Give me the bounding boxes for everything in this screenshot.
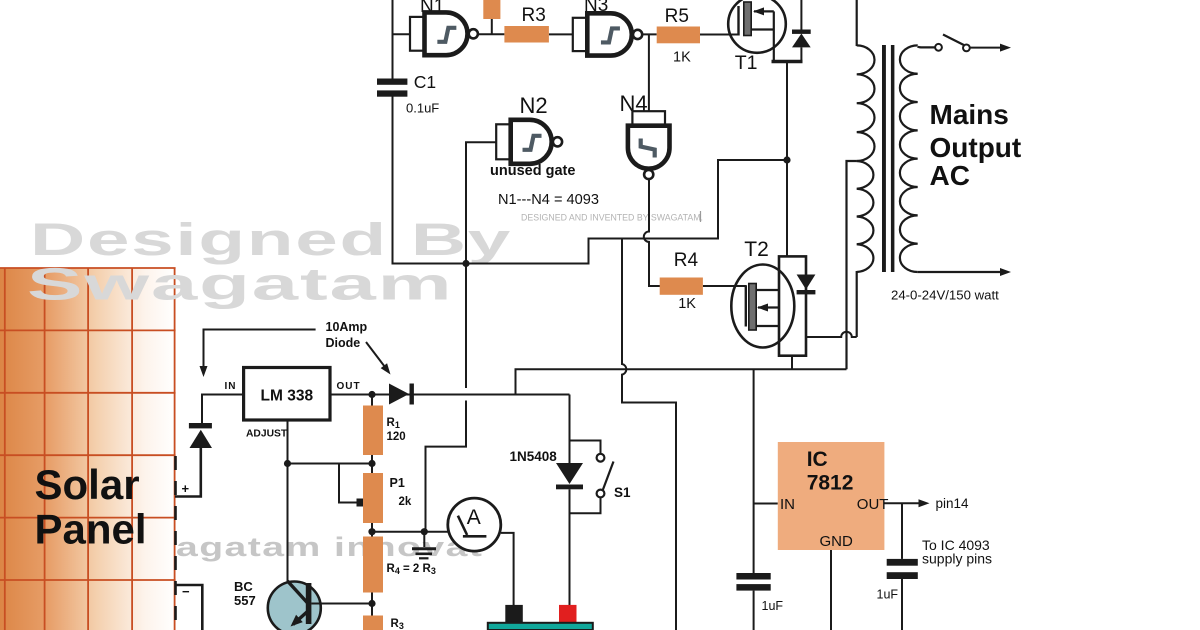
svg-text:2k: 2k (399, 496, 412, 508)
svg-text:P1: P1 (390, 476, 405, 490)
svg-text:Output: Output (930, 132, 1022, 163)
svg-text:120: 120 (387, 431, 406, 443)
svg-text:R4: R4 (674, 250, 699, 271)
svg-text:T1: T1 (735, 52, 758, 74)
svg-text:OUT: OUT (857, 496, 889, 513)
svg-text:IC: IC (807, 448, 828, 471)
svg-text:1uF: 1uF (762, 599, 784, 613)
svg-text:1K: 1K (678, 296, 696, 312)
svg-text:557: 557 (234, 593, 256, 608)
svg-text:1N5408: 1N5408 (510, 449, 558, 464)
svg-text:Panel: Panel (35, 506, 147, 553)
svg-text:C1: C1 (414, 72, 436, 92)
svg-text:−: − (182, 584, 190, 599)
svg-text:10Amp: 10Amp (326, 320, 368, 334)
svg-text:R5: R5 (665, 6, 689, 27)
svg-text:T2: T2 (744, 238, 769, 261)
svg-text:BC: BC (234, 579, 253, 594)
svg-text:R3: R3 (522, 5, 546, 26)
svg-text:agatam innovat: agatam innovat (176, 533, 483, 563)
svg-text:Solar: Solar (35, 461, 140, 508)
svg-text:OUT: OUT (337, 381, 361, 392)
svg-text:AC: AC (930, 160, 970, 191)
svg-text:1K: 1K (673, 50, 691, 66)
svg-text:IN: IN (225, 381, 237, 392)
svg-text:1uF: 1uF (877, 588, 899, 602)
svg-text:ADJUST: ADJUST (246, 429, 288, 440)
svg-text:Diode: Diode (326, 336, 361, 350)
svg-text:R4 = 2 R3: R4 = 2 R3 (387, 563, 436, 576)
svg-text:N2: N2 (520, 93, 548, 118)
svg-text:supply pins: supply pins (922, 551, 992, 567)
svg-text:+: + (182, 481, 190, 496)
svg-text:Designed By: Designed By (30, 215, 512, 265)
svg-text:Swagatam: Swagatam (27, 259, 454, 309)
svg-text:7812: 7812 (807, 472, 854, 495)
svg-text:24-0-24V/150 watt: 24-0-24V/150 watt (891, 288, 999, 303)
svg-text:0.1uF: 0.1uF (406, 101, 439, 116)
svg-text:N1---N4 = 4093: N1---N4 = 4093 (498, 192, 599, 208)
svg-text:IN: IN (780, 496, 795, 513)
svg-text:A: A (467, 506, 481, 529)
svg-text:S1: S1 (614, 485, 631, 500)
svg-text:LM 338: LM 338 (261, 388, 314, 405)
svg-text:DESIGNED AND INVENTED BY SWAGA: DESIGNED AND INVENTED BY SWAGATAM. (521, 213, 703, 223)
svg-text:pin14: pin14 (936, 496, 970, 511)
svg-text:GND: GND (820, 533, 854, 550)
svg-text:Mains: Mains (930, 99, 1009, 130)
